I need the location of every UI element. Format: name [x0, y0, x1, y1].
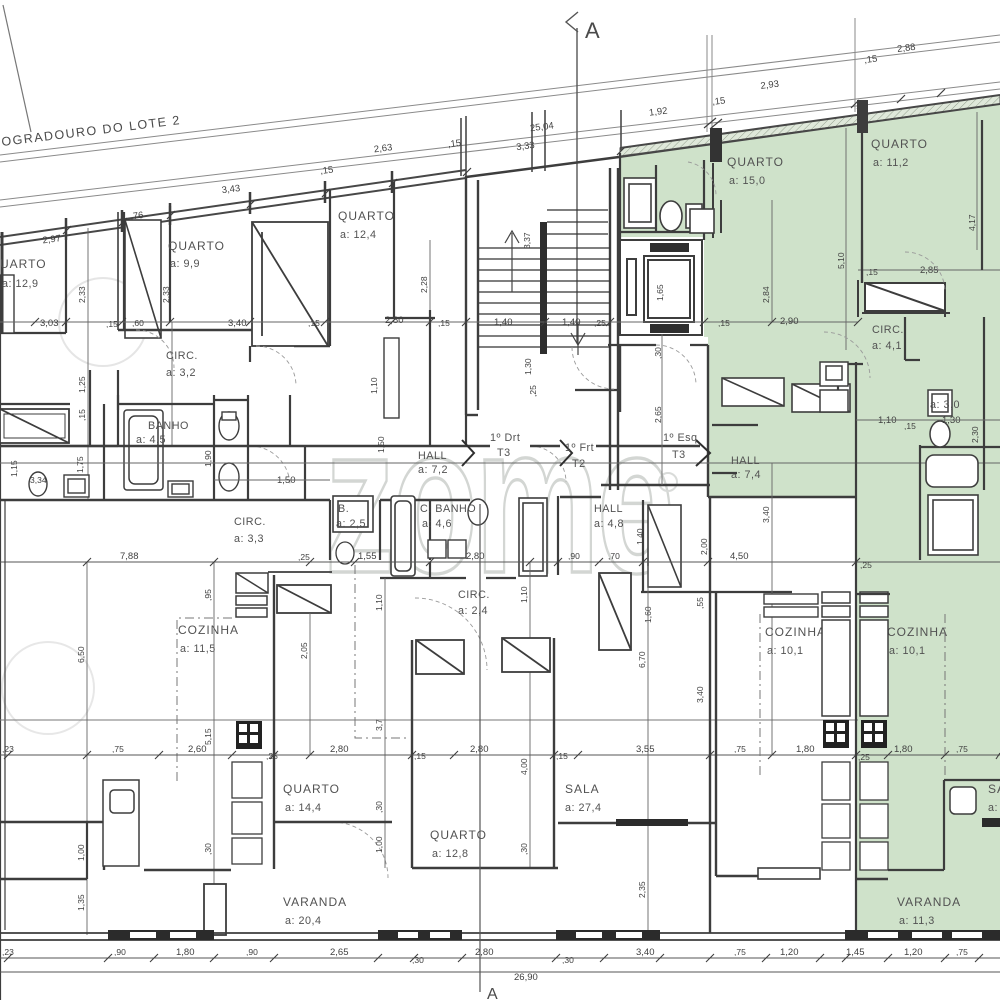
elevator white cutout: [616, 237, 704, 337]
svg-text:1,10: 1,10: [369, 377, 379, 394]
svg-text:1,00: 1,00: [374, 836, 384, 853]
svg-text:QUARTO: QUARTO: [168, 239, 225, 253]
bath c.banho: [391, 496, 415, 576]
top dimension row lower: [36, 134, 467, 247]
svg-text:,15: ,15: [320, 164, 334, 177]
elevator U1: [620, 240, 702, 335]
svg-text:,30: ,30: [203, 843, 213, 855]
svg-text:COZINHA: COZINHA: [178, 623, 239, 637]
svg-text:CIRC.: CIRC.: [166, 350, 198, 362]
svg-text:,30: ,30: [412, 955, 424, 965]
svg-text:1,25: 1,25: [77, 376, 87, 393]
svg-text:,90: ,90: [114, 947, 126, 957]
svg-text:1,10: 1,10: [878, 415, 897, 426]
svg-text:3,43: 3,43: [221, 183, 241, 196]
quarto 14,4 walls: [0, 575, 392, 870]
stair rail: [540, 222, 547, 354]
svg-text:1,30: 1,30: [523, 358, 533, 375]
svg-text:,25: ,25: [860, 560, 872, 570]
svg-text:a: 2,4: a: 2,4: [458, 605, 488, 617]
quarto 11,2 bottom wall + window: [858, 280, 950, 317]
svg-text:COZINHA: COZINHA: [887, 625, 948, 639]
svg-text:CIRC.: CIRC.: [234, 516, 266, 528]
wall between quarto 15,0 and 11,2: [690, 163, 721, 238]
vertical dims left: [88, 228, 430, 500]
svg-text:a: 12,9: a: 12,9: [2, 278, 39, 290]
svg-text:a: 15,0: a: 15,0: [729, 175, 766, 187]
banho left walls: [0, 395, 305, 500]
svg-text:,23: ,23: [2, 744, 14, 754]
svg-text:2,35: 2,35: [637, 881, 647, 898]
svg-text:3,37: 3,37: [522, 232, 532, 249]
svg-text:a: 4,5: a: 4,5: [136, 434, 166, 446]
svg-text:B.: B.: [338, 503, 349, 515]
svg-text:A: A: [487, 986, 498, 1000]
svg-text:a: 20,4: a: 20,4: [285, 915, 322, 927]
shower b 2,5: [333, 496, 373, 532]
middle bathroom walls: [330, 496, 792, 592]
wardrobe hall 4,8: [648, 505, 681, 587]
elevator door bars: [650, 243, 689, 252]
facade wall band: [0, 95, 1000, 245]
svg-text:,15: ,15: [904, 421, 916, 431]
svg-text:,90: ,90: [246, 947, 258, 957]
svg-text:HALL: HALL: [418, 450, 447, 462]
svg-text:,95: ,95: [203, 589, 213, 601]
svg-text:,75: ,75: [734, 947, 746, 957]
svg-text:COZINHA: COZINHA: [765, 625, 826, 639]
svg-text:,25: ,25: [858, 752, 870, 762]
sala door bar: [616, 819, 688, 826]
svg-text:A: A: [585, 18, 600, 43]
facade door stub green: [710, 128, 722, 162]
wall below quarto 9,9: [118, 330, 330, 346]
left edge wall: [0, 333, 1, 1000]
svg-text:,25: ,25: [594, 318, 606, 328]
svg-text:,15: ,15: [864, 54, 878, 67]
green hall wardrobes: [722, 378, 850, 412]
svg-text:VARANDA: VARANDA: [283, 895, 347, 909]
svg-text:a: 3,0: a: 3,0: [930, 399, 960, 411]
corridor walls: [0, 345, 856, 500]
street line B pair: [0, 82, 1000, 207]
window quarto 12,9 upper: [0, 275, 14, 333]
svg-text:UARTO: UARTO: [0, 257, 47, 271]
svg-text:2,80: 2,80: [475, 947, 494, 958]
green circ walls: [712, 120, 984, 560]
svg-text:2,05: 2,05: [299, 642, 309, 659]
hob left: [236, 721, 262, 749]
svg-text:,30: ,30: [562, 955, 574, 965]
svg-text:2,63: 2,63: [373, 142, 393, 155]
svg-text:a: 12,4: a: 12,4: [340, 229, 377, 241]
kitchen middle column: [822, 592, 850, 716]
svg-text:a: 27,4: a: 27,4: [565, 802, 602, 814]
watermark zzome: [2, 278, 677, 734]
svg-text:a: 11,5: a: 11,5: [180, 643, 216, 655]
svg-text:,90: ,90: [568, 551, 580, 561]
svg-text:26,90: 26,90: [514, 972, 538, 983]
svg-text:a: 4,8: a: 4,8: [594, 518, 624, 530]
svg-text:C. BANHO: C. BANHO: [420, 503, 476, 515]
svg-text:1º Drt: 1º Drt: [490, 432, 520, 444]
svg-text:2,80: 2,80: [466, 551, 485, 562]
svg-text:a: 7,4: a: 7,4: [731, 469, 761, 481]
svg-text:1,35: 1,35: [76, 894, 86, 911]
svg-text:BANHO: BANHO: [148, 420, 189, 432]
stair lower walls: [430, 310, 618, 446]
green sala fixture: [950, 787, 976, 814]
svg-text:2,65: 2,65: [653, 406, 663, 423]
sink banho 2: [168, 481, 193, 497]
svg-text:1,55: 1,55: [358, 551, 377, 562]
svg-text:SA: SA: [988, 782, 1000, 796]
dimension ticks rows: [4, 318, 1000, 962]
svg-text:4,50: 4,50: [730, 551, 749, 562]
svg-text:2,33: 2,33: [77, 286, 87, 303]
svg-text:1,20: 1,20: [780, 947, 799, 958]
svg-text:SALA: SALA: [565, 782, 600, 796]
svg-text:1,80: 1,80: [176, 947, 195, 958]
svg-text:a: 4,6: a: 4,6: [422, 518, 452, 530]
svg-text:2,28: 2,28: [419, 276, 429, 293]
svg-text:7,88: 7,88: [120, 551, 139, 562]
quarto divider wall x862: [861, 131, 863, 283]
svg-text:a: 10,1: a: 10,1: [767, 645, 804, 657]
bathtub banho left: [124, 410, 163, 490]
svg-text:1,65: 1,65: [655, 284, 665, 301]
svg-text:QUARTO: QUARTO: [430, 828, 487, 842]
lot division line x707: [707, 18, 855, 132]
svg-text:1,30: 1,30: [942, 415, 961, 426]
hob green: [861, 720, 887, 748]
svg-text:a: 11,2: a: 11,2: [873, 157, 909, 169]
svg-text:,15: ,15: [106, 319, 118, 329]
svg-text:,15: ,15: [866, 267, 878, 277]
door arcs: [136, 162, 945, 878]
svg-text:,25: ,25: [528, 385, 538, 397]
facade hatched band green part: [620, 95, 1000, 156]
svg-text:QUARTO: QUARTO: [283, 782, 340, 796]
svg-text:a:: a:: [988, 802, 998, 814]
svg-text:CIRC.: CIRC.: [458, 589, 490, 601]
svg-text:1,45: 1,45: [846, 947, 865, 958]
svg-text:1,90: 1,90: [203, 450, 213, 467]
svg-text:4,00: 4,00: [519, 758, 529, 775]
sala window vertical: [599, 573, 631, 650]
quarto 12,8 walls: [412, 638, 558, 868]
quarto 12,8 wardrobes: [416, 638, 550, 674]
sinks c.banho: [428, 540, 466, 558]
svg-text:2,90: 2,90: [780, 316, 799, 327]
svg-text:,55: ,55: [695, 597, 705, 609]
svg-text:3,40: 3,40: [636, 947, 655, 958]
quarto 14,4 wardrobe: [268, 572, 332, 613]
svg-text:,75: ,75: [112, 744, 124, 754]
stair front verticals: [461, 110, 621, 176]
stair shaft: [466, 157, 619, 490]
svg-text:,75: ,75: [956, 744, 968, 754]
svg-text:3,7: 3,7: [374, 719, 384, 731]
dim 4,17 5,10 vertical green: [836, 112, 977, 350]
svg-text:2,33: 2,33: [161, 286, 171, 303]
window quarto 9,9: [252, 222, 328, 346]
kitchen middle top bars: [764, 594, 818, 617]
svg-text:HALL: HALL: [594, 503, 623, 515]
svg-text:a: 10,1: a: 10,1: [889, 645, 926, 657]
svg-text:,70: ,70: [608, 551, 620, 561]
dim 2,84 vertical: [771, 200, 773, 322]
kitchen counter L with sink: [103, 780, 139, 866]
svg-text:3,40: 3,40: [228, 318, 247, 329]
svg-text:,15: ,15: [447, 138, 461, 151]
svg-text:QUARTO: QUARTO: [871, 137, 928, 151]
dim row y755: [0, 744, 1000, 762]
svg-text:3,03: 3,03: [40, 318, 59, 329]
circ 2,4 walls: [380, 562, 516, 578]
corridor dim line: [0, 462, 1000, 464]
hob middle: [823, 720, 849, 748]
svg-text:1,10: 1,10: [374, 594, 384, 611]
vertical dim lines lower: [87, 463, 772, 935]
svg-text:a: 4,1: a: 4,1: [872, 340, 902, 352]
dim row y958: [0, 947, 1000, 965]
svg-text:1,50: 1,50: [277, 475, 296, 486]
svg-text:T3: T3: [672, 449, 686, 461]
svg-text:2,93: 2,93: [760, 79, 780, 92]
svg-text:,15: ,15: [718, 318, 730, 328]
thin slab line y720: [0, 719, 858, 721]
svg-text:a: 12,8: a: 12,8: [432, 848, 469, 860]
wc green top walls: [620, 153, 704, 240]
svg-text:2,30: 2,30: [970, 426, 980, 443]
svg-text:3,40: 3,40: [761, 506, 771, 523]
svg-text:,15: ,15: [414, 751, 426, 761]
svg-text:1,40: 1,40: [562, 317, 581, 328]
svg-text:2,84: 2,84: [761, 286, 771, 303]
toilet c.banho: [468, 499, 488, 525]
shower box hall: [519, 498, 547, 576]
lower verticals: [87, 497, 856, 935]
svg-text:1,00: 1,00: [76, 844, 86, 861]
svg-text:3,40: 3,40: [695, 686, 705, 703]
street line A pair: [0, 35, 1000, 162]
green apartment region: [620, 104, 1000, 930]
window quarto 12,4: [384, 338, 399, 418]
svg-text:,15: ,15: [77, 409, 87, 421]
svg-text:,75: ,75: [734, 744, 746, 754]
svg-text:1,92: 1,92: [648, 105, 668, 118]
svg-text:2,65: 2,65: [330, 947, 349, 958]
svg-text:1º Esq: 1º Esq: [663, 432, 698, 444]
wall below elevator: [608, 344, 708, 346]
circ 3,2 walls: [90, 346, 290, 446]
facade window piers: [66, 171, 392, 240]
svg-text:5,15: 5,15: [203, 728, 213, 745]
svg-text:,30: ,30: [519, 843, 529, 855]
kitchen left counters top: [236, 573, 268, 617]
svg-text:2,80: 2,80: [330, 744, 349, 755]
svg-text:,60: ,60: [132, 318, 144, 328]
svg-text:T2: T2: [572, 458, 586, 470]
section line A top: [566, 12, 578, 343]
svg-text:2,88: 2,88: [896, 42, 916, 55]
kitchen green column: [860, 592, 888, 716]
svg-text:a: 2,5: a: 2,5: [336, 518, 366, 530]
svg-text:a: 3,2: a: 3,2: [166, 367, 196, 379]
svg-text:QUARTO: QUARTO: [338, 209, 395, 223]
svg-text:6,50: 6,50: [76, 646, 86, 663]
svg-text:,15: ,15: [556, 751, 568, 761]
wall quarto 12,4 left: [330, 182, 435, 346]
sala divider wall x716: [558, 497, 758, 933]
svg-text:,30: ,30: [653, 347, 663, 359]
sink left: [29, 472, 89, 497]
svg-text:3,55: 3,55: [636, 744, 655, 755]
svg-text:a: 14,4: a: 14,4: [285, 802, 322, 814]
dim row total 26,90: [0, 971, 1000, 973]
stair arrows: [505, 231, 585, 355]
svg-text:1,75: 1,75: [75, 456, 85, 473]
cozinha 10,1 window bottom: [758, 868, 820, 879]
svg-text:a: 7,2: a: 7,2: [418, 464, 448, 476]
left edge double wall: [4, 500, 6, 930]
svg-text:1,50: 1,50: [376, 436, 386, 453]
svg-text:1,80: 1,80: [894, 744, 913, 755]
svg-text:2,00: 2,00: [699, 538, 709, 555]
top dimension row upper: [509, 42, 922, 153]
wc 3,0 green: [928, 390, 952, 447]
svg-text:a: 11,3: a: 11,3: [899, 915, 935, 927]
svg-text:2,80: 2,80: [470, 744, 489, 755]
svg-text:5,10: 5,10: [836, 252, 846, 269]
varanda divider: [204, 884, 226, 935]
bottom window bars: [108, 930, 1000, 940]
svg-text:,15: ,15: [438, 318, 450, 328]
dim row y562: [0, 551, 1000, 570]
svg-text:CIRC.: CIRC.: [872, 324, 904, 336]
svg-text:,25: ,25: [298, 552, 310, 562]
svg-text:6,70: 6,70: [637, 651, 647, 668]
svg-text:,30: ,30: [374, 801, 384, 813]
apt entry chevrons: [462, 440, 710, 466]
dim ticks top rows: [63, 89, 945, 234]
svg-text:4,17: 4,17: [967, 214, 977, 231]
kitchen dashed boundary left: [177, 565, 410, 782]
svg-text:a: 3,3: a: 3,3: [234, 533, 264, 545]
window quarto 12,9 lower: [0, 409, 69, 443]
closets circ 4,1: [820, 362, 848, 412]
window bay quarto 9,9 left: [125, 220, 161, 338]
svg-text:,15: ,15: [712, 95, 726, 108]
svg-text:T3: T3: [497, 447, 511, 459]
svg-text:HALL: HALL: [731, 455, 760, 467]
svg-text:1,10: 1,10: [519, 586, 529, 603]
lower walls row: [0, 878, 888, 880]
wc green top fixtures: [624, 178, 702, 231]
svg-text:3,34: 3,34: [30, 475, 47, 485]
lot boundary line top-left: [3, 5, 31, 132]
bath right green: [926, 455, 978, 555]
kitchen left lower cabinets: [232, 762, 262, 864]
svg-text:,75: ,75: [956, 947, 968, 957]
svg-text:1,80: 1,80: [796, 744, 815, 755]
svg-text:1,40: 1,40: [635, 528, 645, 545]
green bath top wall: [920, 446, 1000, 448]
dim row y322: [0, 315, 858, 329]
svg-text:,23: ,23: [2, 947, 14, 957]
svg-text:2,97: 2,97: [42, 233, 62, 246]
svg-text:a: 9,9: a: 9,9: [170, 258, 200, 270]
svg-text:QUARTO: QUARTO: [727, 155, 784, 169]
toilet b 2,5: [336, 542, 354, 564]
svg-text:,15: ,15: [308, 318, 320, 328]
green cozinha walls: [856, 594, 1000, 870]
svg-text:1,20: 1,20: [904, 947, 923, 958]
svg-text:VARANDA: VARANDA: [897, 895, 961, 909]
stair treads: [479, 210, 610, 347]
svg-text:1,40: 1,40: [494, 317, 513, 328]
section line A bottom: [479, 504, 481, 992]
bottom facade wall: [0, 933, 1000, 940]
toilet bidet left: [219, 412, 239, 491]
svg-text:2,60: 2,60: [188, 744, 207, 755]
svg-text:1º Frt: 1º Frt: [565, 442, 594, 454]
quarto 12,9 right wall: [0, 206, 170, 333]
kitchen dashed boundaries right: [759, 614, 761, 775]
